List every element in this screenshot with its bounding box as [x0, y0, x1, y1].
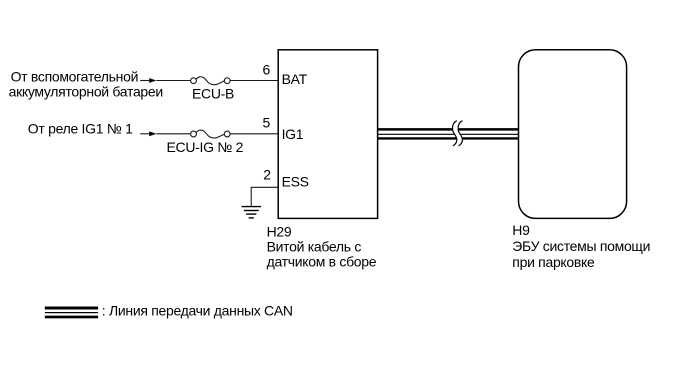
wire: fuse ECU-B to pin 6 — [230, 80, 278, 82]
svg-text:ЭБУ системы помощи: ЭБУ системы помощи — [512, 238, 650, 254]
svg-text:датчиком в сборе: датчиком в сборе — [267, 254, 377, 270]
arrow head (BAT feed direction) — [149, 78, 156, 83]
svg-text:IG1: IG1 — [282, 126, 304, 142]
svg-text:5: 5 — [263, 114, 271, 130]
svg-text:при парковке: при парковке — [512, 254, 595, 270]
label: H29 Витой кабель с датчиком в сборе — [267, 223, 377, 269]
svg-text:аккумуляторной батареи: аккумуляторной батареи — [9, 83, 163, 99]
wire: CAN bus (three-line symbol) between H29 and H9 — [378, 129, 519, 138]
svg-text:2: 2 — [263, 166, 271, 182]
svg-text:BAT: BAT — [282, 71, 308, 87]
CAN bus break symbol — [452, 121, 462, 146]
node label: От вспомогательной аккумуляторной батареи — [9, 69, 163, 100]
svg-text:Витой кабель с: Витой кабель с — [267, 239, 362, 255]
legend: CAN line symbol — [45, 308, 98, 317]
wire: pin 2 ESS to ground drop — [251, 187, 278, 206]
wire: arrow shaft into BAT feed — [140, 80, 149, 82]
svg-text:От вспомогательной: От вспомогательной — [11, 69, 139, 85]
wire: arrow shaft into IG1 feed — [140, 133, 149, 135]
svg-text:6: 6 — [263, 61, 271, 77]
arrow head (IG1 feed direction) — [149, 131, 156, 136]
svg-text:: Линия передачи данных CAN: : Линия передачи данных CAN — [102, 303, 293, 319]
svg-text:От реле IG1 № 1: От реле IG1 № 1 — [28, 120, 133, 136]
svg-text:ESS: ESS — [282, 174, 309, 190]
svg-text:H29: H29 — [267, 223, 292, 239]
component H9: parking assist ECU — [519, 50, 627, 219]
svg-text:ECU-IG № 2: ECU-IG № 2 — [167, 139, 244, 155]
svg-text:H9: H9 — [512, 222, 530, 238]
fuse ECU-IG № 2 — [191, 130, 231, 138]
wire: fuse ECU-IG № 2 to pin 5 — [230, 133, 278, 135]
svg-text:ECU-B: ECU-B — [192, 86, 234, 102]
label: H9 ЭБУ системы помощи при парковке — [512, 222, 650, 270]
fuse ECU-B — [191, 77, 231, 85]
component H29: twisted-pair cable with sensor assembly — [278, 50, 377, 219]
wire: arrow tip to fuse ECU-IG № 2 — [156, 133, 190, 135]
ground — [242, 207, 262, 218]
wire: arrow tip to fuse ECU-B — [156, 80, 190, 82]
